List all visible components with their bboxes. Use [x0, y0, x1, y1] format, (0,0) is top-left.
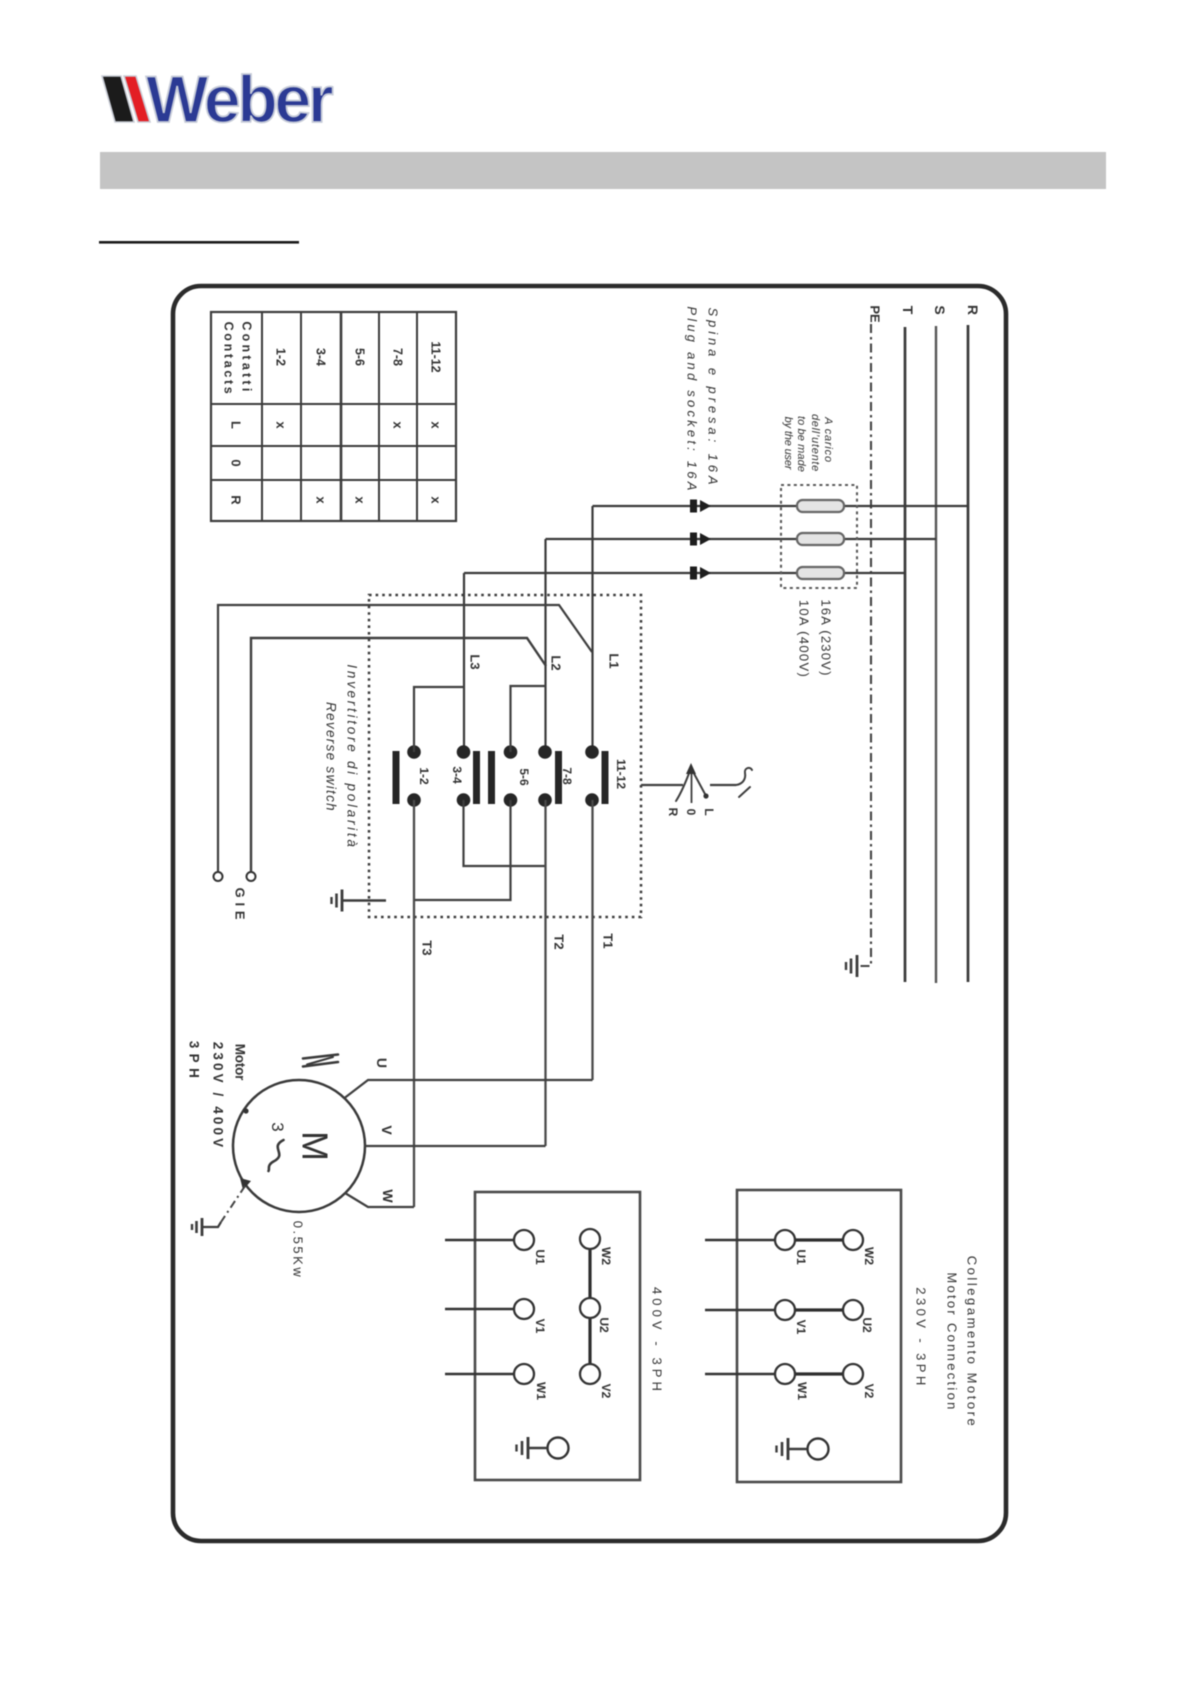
svg-text:GIE: GIE	[232, 888, 247, 925]
svg-text:dell’utente: dell’utente	[809, 414, 821, 472]
svg-text:S: S	[932, 305, 948, 314]
svg-text:L: L	[228, 421, 243, 429]
svg-text:10A (400V): 10A (400V)	[797, 600, 812, 678]
svg-text:R: R	[228, 495, 243, 505]
svg-text:to be made: to be made	[795, 416, 807, 472]
svg-text:U2: U2	[860, 1317, 874, 1333]
svg-text:x: x	[313, 496, 328, 504]
svg-text:L: L	[702, 808, 716, 815]
svg-text:1-2: 1-2	[417, 767, 431, 785]
svg-text:T: T	[900, 306, 916, 315]
svg-text:Plug and socket: 16A: Plug and socket: 16A	[685, 306, 700, 493]
svg-text:x: x	[273, 421, 288, 429]
svg-text:Motor: Motor	[232, 1044, 247, 1081]
svg-text:L3: L3	[467, 654, 482, 669]
svg-text:U1: U1	[533, 1249, 547, 1265]
svg-text:230V - 3PH: 230V - 3PH	[914, 1287, 929, 1388]
svg-text:V2: V2	[599, 1384, 613, 1399]
svg-text:Reverse switch: Reverse switch	[323, 702, 338, 812]
svg-text:W1: W1	[795, 1382, 809, 1400]
svg-text:V1: V1	[794, 1320, 808, 1335]
svg-text:7-8: 7-8	[391, 348, 405, 366]
svg-text:U2: U2	[597, 1317, 611, 1333]
svg-text:PE: PE	[868, 305, 883, 323]
svg-text:3-4: 3-4	[314, 348, 328, 366]
svg-text:V1: V1	[533, 1319, 547, 1334]
svg-text:U1: U1	[794, 1249, 808, 1265]
svg-text:W2: W2	[599, 1247, 613, 1265]
svg-text:3-4: 3-4	[450, 766, 464, 784]
svg-text:R: R	[965, 305, 981, 315]
svg-text:x: x	[352, 496, 367, 504]
svg-text:230V / 400V: 230V / 400V	[210, 1042, 225, 1150]
svg-text:11-12: 11-12	[614, 759, 628, 789]
svg-text:L1: L1	[607, 653, 622, 668]
svg-text:0.55Kw: 0.55Kw	[290, 1221, 305, 1279]
svg-text:x: x	[390, 421, 405, 429]
svg-text:U: U	[374, 1058, 390, 1068]
svg-text:L2: L2	[549, 655, 564, 670]
svg-text:by the user: by the user	[782, 417, 794, 471]
svg-text:5-6: 5-6	[517, 768, 531, 786]
svg-text:A carico: A carico	[822, 416, 834, 463]
svg-text:T3: T3	[419, 940, 434, 955]
svg-text:1-2: 1-2	[274, 348, 288, 366]
svg-text:0: 0	[228, 459, 243, 466]
svg-text:M: M	[294, 1131, 335, 1161]
svg-text:16A (230V): 16A (230V)	[819, 599, 834, 676]
svg-text:7-8: 7-8	[560, 767, 574, 785]
svg-text:V: V	[379, 1125, 395, 1135]
svg-text:5-6: 5-6	[353, 348, 367, 366]
svg-text:x: x	[428, 496, 443, 504]
svg-text:W2: W2	[862, 1247, 876, 1265]
svg-text:Spina e presa: 16A: Spina e presa: 16A	[706, 308, 721, 489]
svg-text:T1: T1	[601, 933, 616, 948]
svg-text:3PH: 3PH	[186, 1041, 201, 1083]
svg-text:V2: V2	[862, 1384, 876, 1399]
svg-text:T2: T2	[552, 934, 567, 949]
svg-text:x: x	[428, 421, 443, 429]
svg-text:Motor Connection: Motor Connection	[945, 1272, 960, 1411]
svg-text:Weber: Weber	[146, 62, 333, 136]
svg-text:0: 0	[684, 809, 698, 816]
svg-text:Contacts: Contacts	[222, 322, 236, 397]
svg-text:Contatti: Contatti	[240, 321, 254, 394]
svg-text:W: W	[380, 1189, 396, 1203]
svg-text:400V - 3PH: 400V - 3PH	[650, 1287, 665, 1395]
svg-text:Collegamento Motore: Collegamento Motore	[965, 1256, 980, 1429]
svg-text:W1: W1	[534, 1382, 548, 1400]
svg-text:Invertitore di polarità: Invertitore di polarità	[344, 664, 359, 849]
svg-text:3: 3	[268, 1122, 287, 1131]
svg-text:11-12: 11-12	[429, 341, 443, 372]
svg-text:R: R	[666, 808, 680, 817]
